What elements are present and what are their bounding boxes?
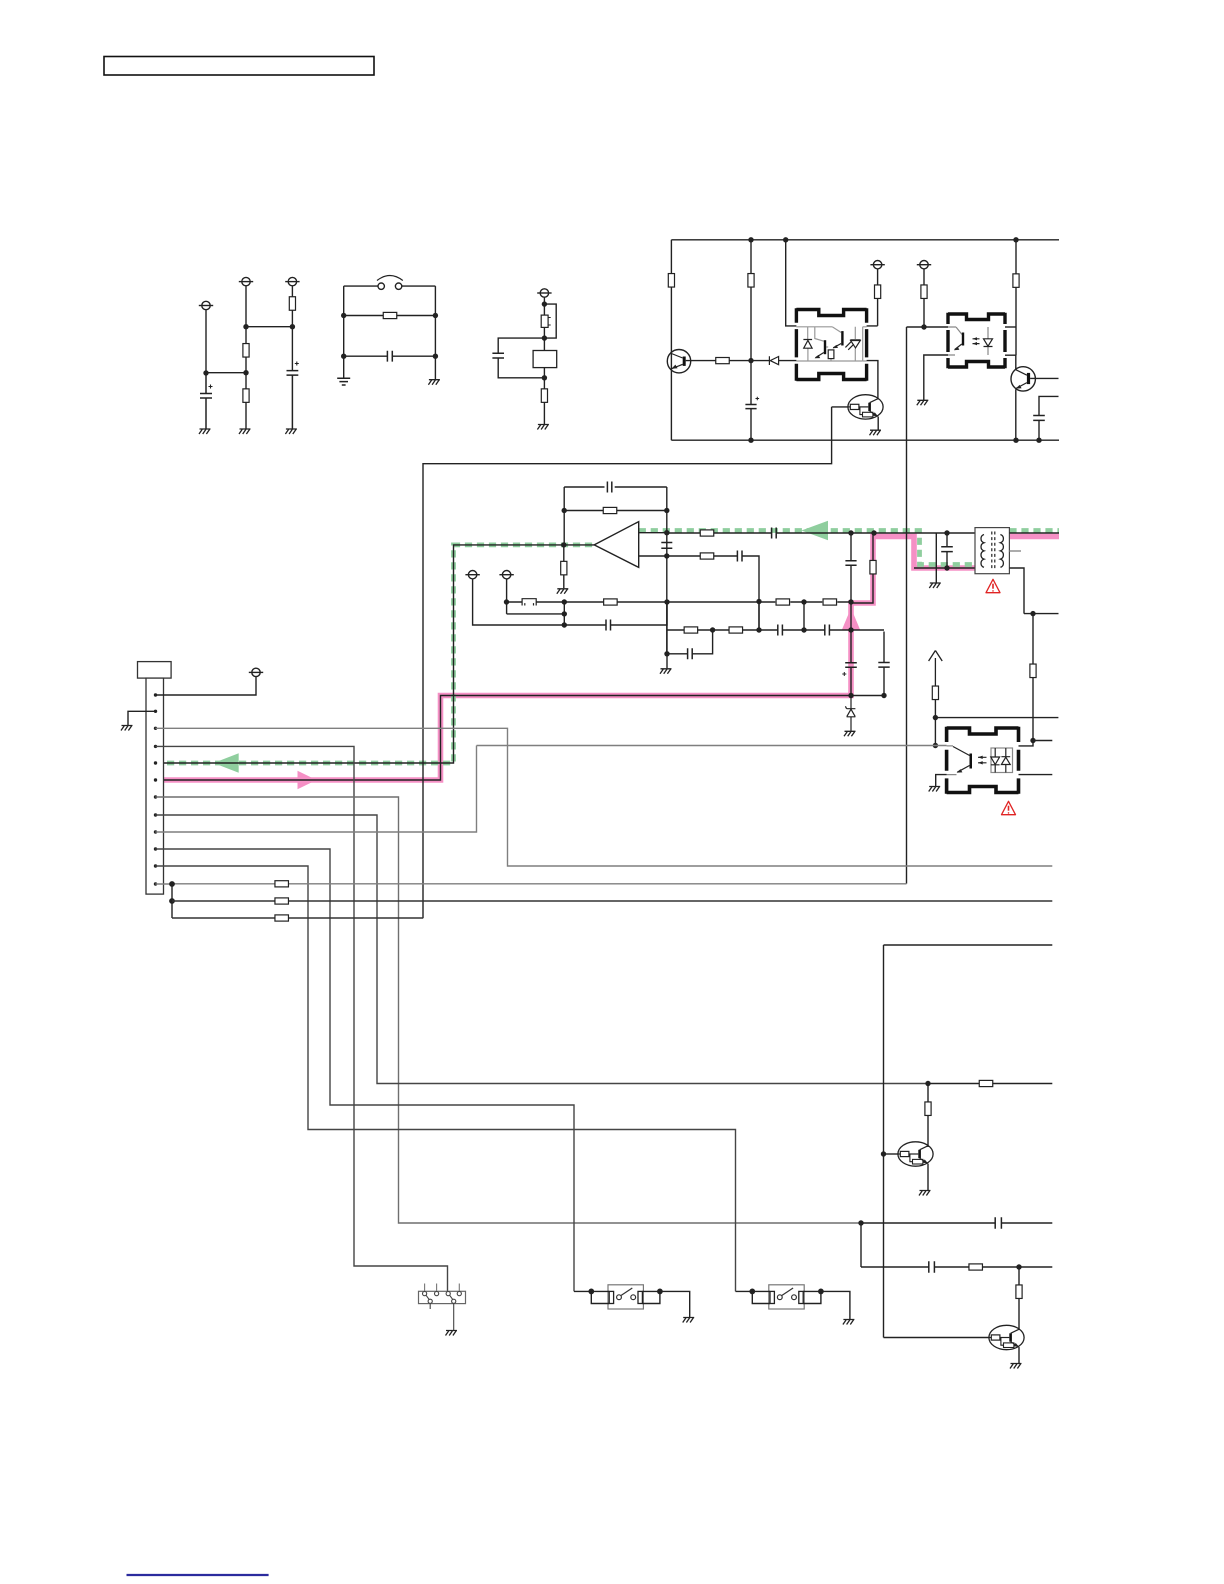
- node 851 rowA: [848, 599, 853, 604]
- SW3 lever: [782, 1288, 794, 1296]
- wire pin4: [156, 746, 448, 1291]
- node B2: [243, 370, 248, 375]
- node rail e: [1013, 438, 1018, 443]
- bottom rail: [671, 439, 1059, 441]
- wire U2 emitter to ground: [924, 355, 948, 400]
- capacitor C10: [737, 551, 742, 562]
- wire B2: [245, 357, 247, 389]
- wire Q5 emitter: [1018, 1347, 1020, 1363]
- vertical 884 cap branch: [883, 632, 885, 696]
- wire pin11: [156, 866, 736, 1291]
- wire pin10: [156, 849, 575, 1291]
- row 945 wire: [884, 944, 1053, 946]
- node U2 in: [921, 324, 926, 329]
- row C wire terminal M1: [473, 579, 667, 625]
- resistor R2: [243, 389, 249, 403]
- resistor R9: [867, 269, 878, 326]
- SW3 left wiring: [736, 1291, 771, 1303]
- terminal U2: [917, 261, 931, 269]
- node row1267: [1016, 1264, 1021, 1269]
- capacitor C16 polarized: [845, 663, 857, 668]
- node SW2a: [588, 1289, 594, 1295]
- digital transistor Q5: [989, 1325, 1024, 1349]
- wire U4 emitter ground: [936, 775, 947, 786]
- node rail f: [1036, 438, 1041, 443]
- node pull1: [933, 715, 938, 720]
- resistor R19: [776, 599, 790, 605]
- digital transistor Q2: [848, 395, 883, 419]
- wire terminal M2 down: [506, 579, 508, 614]
- row 1267 wire: [861, 1266, 1052, 1268]
- resistor R26: [275, 898, 289, 904]
- node SW3a: [749, 1289, 755, 1295]
- wire B: [245, 286, 247, 344]
- feedback left vertical: [563, 487, 565, 545]
- node Q1 base: [748, 358, 753, 363]
- feedback right vertical: [666, 487, 668, 654]
- row 533 line wire: [667, 532, 975, 534]
- op-amp input wires: [639, 533, 667, 556]
- capacitor C20: [929, 1261, 935, 1273]
- node SW2b: [657, 1289, 663, 1295]
- resistor R8: [748, 274, 754, 288]
- row 745 wire from connector pin9: [477, 745, 947, 747]
- spark gap electrode 1: [378, 283, 384, 289]
- node C1: [290, 324, 295, 329]
- wire node B1 to node C1: [246, 326, 292, 328]
- node G3c: [542, 375, 547, 380]
- wire gate net to connector row: [423, 407, 832, 918]
- ground Q2: [870, 430, 882, 435]
- SW2 left wiring: [574, 1291, 609, 1303]
- wire Q3 emitter: [1015, 389, 1017, 440]
- capacitor C15: [845, 561, 856, 566]
- resistor R21 in pink branch: [870, 560, 876, 574]
- node line2: [871, 530, 876, 535]
- optocoupler U1 body: [796, 308, 866, 380]
- node MA: [504, 599, 509, 604]
- resistor R25: [275, 881, 289, 887]
- SW3 right wiring: [803, 1291, 850, 1319]
- wire G3c: [543, 368, 545, 391]
- node G2d: [433, 354, 438, 359]
- node row556 join: [756, 599, 761, 604]
- node G2c: [341, 354, 346, 359]
- pink arrow up: [842, 608, 860, 630]
- feedback resistor R12: [564, 510, 667, 512]
- wire Q4 gate: [884, 1153, 898, 1155]
- spark gap arc: [377, 276, 403, 281]
- wire pin8: [156, 815, 929, 1084]
- SW2 terminals: [609, 1291, 613, 1303]
- optocoupler U2 body: [948, 313, 1005, 368]
- resistor R22: [1032, 614, 1034, 741]
- diode D1: [751, 360, 796, 362]
- group1 terminal A: [199, 301, 213, 309]
- transistor Q3: [1011, 367, 1035, 391]
- SW2 contacts: [617, 1295, 622, 1300]
- vertical 851 with caps: [850, 533, 852, 696]
- title box: [104, 57, 374, 76]
- long vertical to connector row12: [906, 327, 908, 884]
- node DA: [710, 627, 715, 632]
- resistor R14: [700, 530, 714, 536]
- feedback capacitor C7 row: [564, 486, 667, 488]
- wire U1 out to Q2: [867, 361, 878, 400]
- ground C: [285, 429, 297, 434]
- spark gap top wire: [344, 285, 436, 287]
- row D wire: [667, 602, 884, 630]
- capacitor C5: [745, 405, 756, 409]
- capacitor C9: [772, 528, 777, 539]
- secondary lower wire: [1009, 568, 1058, 614]
- node G3b: [542, 335, 547, 340]
- terminal pin1: [249, 668, 263, 676]
- capacitor C2 polarized: [287, 371, 299, 429]
- resistor R4: [344, 315, 436, 317]
- node MB: [562, 599, 567, 604]
- capacitor C8 between inputs: [661, 543, 672, 549]
- resistor R23: [932, 686, 938, 700]
- resistor R28: [927, 1084, 929, 1148]
- SW3 contacts: [777, 1295, 782, 1300]
- resistor R24: [979, 1080, 993, 1086]
- row 901 wire: [172, 900, 1052, 902]
- chassis ground G2: [428, 380, 440, 385]
- wire U4 out right: [1019, 774, 1053, 776]
- wire Q4 emitter: [927, 1164, 929, 1190]
- node A1: [203, 370, 208, 375]
- wire T3: [543, 297, 545, 315]
- node pink row696 b: [881, 693, 886, 698]
- capacitor C12: [778, 625, 783, 636]
- digital transistor Q4: [898, 1142, 933, 1166]
- ground SW3: [843, 1320, 855, 1325]
- ground opamp: [557, 589, 569, 594]
- wire Q2 emitter: [877, 417, 879, 430]
- wire pin9 gray: [156, 746, 477, 833]
- ground U4: [929, 787, 941, 792]
- transformer T1: [975, 528, 1009, 574]
- resistor R18: [729, 627, 743, 633]
- ground SW2: [683, 1318, 695, 1323]
- SW2 lever: [621, 1288, 633, 1296]
- capacitor C17: [878, 663, 889, 668]
- resistor R15: [700, 553, 714, 559]
- warning triangle 1: [986, 579, 1000, 592]
- node line1: [848, 530, 853, 535]
- capacitor C4 branch: [498, 338, 544, 378]
- wire connector pin6 to line (pink path): [156, 696, 885, 781]
- resistor R17: [684, 627, 698, 633]
- row 717 wire: [935, 717, 1058, 719]
- ground G3: [537, 425, 549, 430]
- wire R23 down: [934, 700, 936, 746]
- node row A right1: [801, 599, 806, 604]
- green arrow left (connector row): [214, 753, 239, 773]
- ground A: [199, 429, 211, 434]
- fuse bypass wire: [544, 304, 556, 338]
- row 918 wire: [172, 917, 423, 919]
- SW1 contacts: [423, 1284, 462, 1331]
- pink arrow right: [298, 771, 317, 789]
- capacitor C19: [995, 1217, 1001, 1229]
- terminal U1: [870, 261, 884, 269]
- spark gap electrode 2: [395, 283, 401, 289]
- row A fusible resistor F2: [507, 601, 668, 603]
- top rail: [671, 239, 1059, 241]
- wire B3: [245, 402, 247, 429]
- node DD: [848, 627, 853, 632]
- node output: [561, 542, 566, 547]
- node IN2: [664, 553, 669, 558]
- ground U2: [917, 400, 929, 405]
- wire Q3 base out: [1030, 377, 1058, 379]
- node MD: [562, 611, 567, 616]
- wire pink jog resistor branch: [851, 533, 873, 603]
- node Q4 gate: [881, 1151, 886, 1156]
- wire Q2 gate: [832, 406, 848, 408]
- group2 right rail: [434, 286, 436, 380]
- transistor Q1: [667, 350, 690, 373]
- switch SW2 body: [608, 1285, 643, 1309]
- node rail d: [748, 438, 753, 443]
- resistor R3: [289, 297, 295, 311]
- sub capacitor row: [667, 630, 713, 654]
- node row1084: [925, 1081, 930, 1086]
- ground SW1: [446, 1331, 458, 1336]
- opto U4 internals: [947, 746, 1013, 775]
- node MC: [664, 599, 669, 604]
- connector J1 body: [146, 678, 164, 894]
- left branch wire: [670, 240, 672, 440]
- node sec2: [1030, 738, 1035, 743]
- terminal M2: [499, 571, 513, 579]
- wire Q5 gate: [884, 1337, 989, 1339]
- resistor R5: [541, 389, 547, 403]
- node sub: [664, 651, 669, 656]
- capacitor C13: [825, 625, 830, 636]
- node ME: [562, 622, 567, 627]
- wire opto2 input: [907, 326, 949, 328]
- resistor R7 base: [686, 360, 751, 362]
- resistor R11: [1015, 240, 1017, 327]
- ground pin2: [121, 726, 133, 731]
- node pin12: [169, 881, 175, 887]
- green arrow left (line row): [801, 521, 828, 540]
- resistor R1: [243, 344, 249, 358]
- node B1: [243, 324, 248, 329]
- node row1223: [858, 1220, 863, 1225]
- row A right wires: [667, 601, 851, 603]
- opto U1 feed wire: [786, 240, 797, 326]
- earth ground: [337, 378, 350, 385]
- wire C2: [291, 310, 293, 370]
- wire sub ground: [666, 654, 668, 669]
- wire pin2 ground: [128, 711, 156, 725]
- resistor R29: [969, 1264, 983, 1270]
- node G3a: [542, 301, 547, 306]
- zener diode D2 to ground: [845, 696, 855, 732]
- vertical 883: [883, 945, 885, 1338]
- node FB1: [562, 508, 567, 513]
- pink TX highlight route: [155, 537, 1059, 781]
- group1 terminal B: [239, 277, 253, 285]
- wire G3d: [543, 402, 545, 424]
- green RX dashed route: [155, 531, 1059, 764]
- group3 terminal: [537, 289, 551, 297]
- opto U1 internals: [796, 327, 866, 361]
- ground B: [239, 429, 251, 434]
- optocoupler U4 body: [947, 727, 1019, 794]
- ground Q5: [1010, 1364, 1022, 1369]
- resistor R20: [823, 599, 837, 605]
- wire C: [291, 286, 293, 298]
- resistor R16: [604, 599, 618, 605]
- terminal M1: [465, 571, 479, 579]
- node branch 861: [860, 1223, 862, 1267]
- ground D2: [844, 731, 856, 736]
- wire pin1: [156, 677, 257, 695]
- switch SW3 body: [769, 1285, 804, 1309]
- transformer secondary wire: [1009, 532, 1059, 534]
- node IN1: [664, 530, 669, 535]
- transformer mid stub: [1009, 550, 1021, 552]
- capacitor C11: [606, 620, 611, 631]
- node DC: [801, 627, 806, 632]
- warning triangle 2: [1002, 801, 1016, 814]
- resistor R10: [923, 269, 925, 327]
- vertical DB: [758, 602, 760, 631]
- node G2b: [433, 313, 438, 318]
- node DB: [756, 627, 761, 632]
- node pink row696 a: [848, 693, 853, 698]
- wire pin3 gray: [156, 728, 1053, 866]
- switch SW1 body: [419, 1291, 466, 1303]
- node sec1: [1030, 611, 1035, 616]
- wire A: [205, 310, 207, 373]
- connector J1 header: [138, 662, 172, 679]
- footer blue line: [127, 1574, 269, 1576]
- node opto3 in: [933, 743, 938, 748]
- node FB2: [664, 508, 669, 513]
- opto U2 internals: [948, 327, 988, 355]
- capacitor C3: [344, 355, 436, 357]
- wire U2 LED cathode to Q3: [1005, 327, 1016, 370]
- SW3 terminals: [770, 1291, 774, 1303]
- wire U2 LED anode: [1005, 326, 1016, 328]
- op-amp U3: [594, 522, 639, 568]
- node row901: [169, 898, 175, 904]
- SW2 right wiring: [642, 1291, 689, 1317]
- supply arrow: [929, 651, 943, 687]
- capacitor C6: [1039, 396, 1059, 440]
- ground Q4: [919, 1191, 931, 1196]
- line coupling cap C18: [914, 533, 975, 583]
- ground sub: [660, 669, 672, 674]
- capacitor C14: [688, 648, 693, 659]
- vertical 172: [171, 884, 173, 918]
- wire pin7 gray: [156, 797, 862, 1223]
- wire G3b: [543, 327, 545, 350]
- group2 spark arrester left rail: [343, 286, 345, 378]
- row B wire: [507, 613, 565, 615]
- node xfmr b: [944, 565, 949, 570]
- wire sec2 stub: [1019, 741, 1053, 746]
- row 556 wire: [667, 556, 759, 632]
- node rail c: [1013, 237, 1018, 242]
- ground line cap: [929, 583, 941, 588]
- wire pin12 gray row: [156, 883, 907, 885]
- connector pins: [154, 693, 157, 885]
- wire op-amp output to connector pin5 (green path): [156, 545, 595, 763]
- vertical DC: [803, 602, 805, 630]
- capacitor C1 polarized: [200, 373, 212, 429]
- node SW3b: [818, 1289, 824, 1295]
- resistor R27: [275, 915, 289, 921]
- resistor R30: [1018, 1267, 1020, 1330]
- resistor R13 to ground: [563, 545, 565, 588]
- node G2a: [341, 313, 346, 318]
- resistor R6: [668, 274, 674, 288]
- relay RY1 coil: [533, 351, 557, 368]
- node xfmr a: [944, 530, 949, 535]
- wire node A1 to node B2: [206, 372, 246, 374]
- node rail a: [748, 237, 753, 242]
- thermal fuse F1: [541, 315, 548, 327]
- vertical MB-MD: [563, 602, 565, 625]
- mid branch wire: [750, 240, 752, 440]
- node rail b: [783, 237, 788, 242]
- group1 terminal C: [285, 277, 299, 285]
